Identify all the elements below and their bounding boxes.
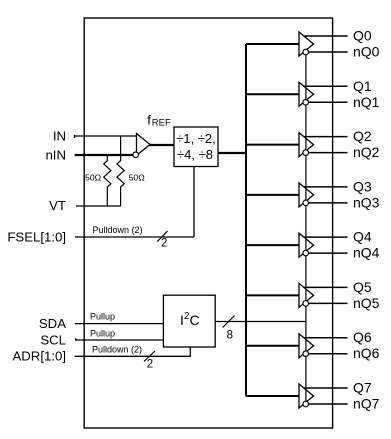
svg-text:nQ4: nQ4 [353, 245, 380, 261]
svg-text:nQ1: nQ1 [353, 94, 380, 110]
svg-text:nIN: nIN [45, 148, 66, 163]
svg-text:Q5: Q5 [353, 279, 372, 295]
svg-text:nQ7: nQ7 [353, 396, 380, 412]
svg-text:REF: REF [152, 118, 171, 129]
svg-text:VT: VT [49, 198, 66, 213]
svg-text:2: 2 [147, 358, 153, 370]
svg-text:SDA: SDA [39, 316, 66, 331]
svg-text:nQ5: nQ5 [353, 295, 380, 311]
svg-text:nQ0: nQ0 [353, 44, 380, 60]
svg-text:Pullup: Pullup [90, 312, 115, 322]
svg-text:nQ3: nQ3 [353, 194, 380, 210]
svg-text:Q2: Q2 [353, 128, 372, 144]
svg-text:Q7: Q7 [353, 380, 372, 396]
svg-text:Q6: Q6 [353, 329, 372, 345]
svg-text:nQ2: nQ2 [353, 144, 380, 160]
svg-text:ADR[1:0]: ADR[1:0] [12, 349, 66, 364]
svg-text:IN: IN [53, 129, 66, 144]
svg-text:8: 8 [227, 329, 233, 341]
svg-text:50Ω: 50Ω [129, 173, 146, 183]
svg-text:50Ω: 50Ω [85, 173, 102, 183]
svg-text:I2C: I2C [180, 311, 200, 328]
svg-text:Q1: Q1 [353, 78, 372, 94]
svg-text:FSEL[1:0]: FSEL[1:0] [7, 230, 66, 245]
svg-text:Pulldown (2): Pulldown (2) [93, 225, 143, 235]
svg-text:÷4, ÷8: ÷4, ÷8 [177, 147, 213, 162]
svg-text:÷1, ÷2,: ÷1, ÷2, [176, 131, 216, 146]
svg-text:Q4: Q4 [353, 229, 372, 245]
svg-text:2: 2 [161, 238, 167, 250]
svg-text:Q3: Q3 [353, 178, 372, 194]
svg-text:Pullup: Pullup [90, 329, 115, 339]
svg-text:Pulldown (2): Pulldown (2) [92, 345, 142, 355]
svg-text:f: f [147, 112, 151, 127]
svg-text:SCL: SCL [40, 333, 66, 348]
svg-text:Q0: Q0 [353, 28, 372, 44]
svg-text:nQ6: nQ6 [353, 345, 380, 361]
